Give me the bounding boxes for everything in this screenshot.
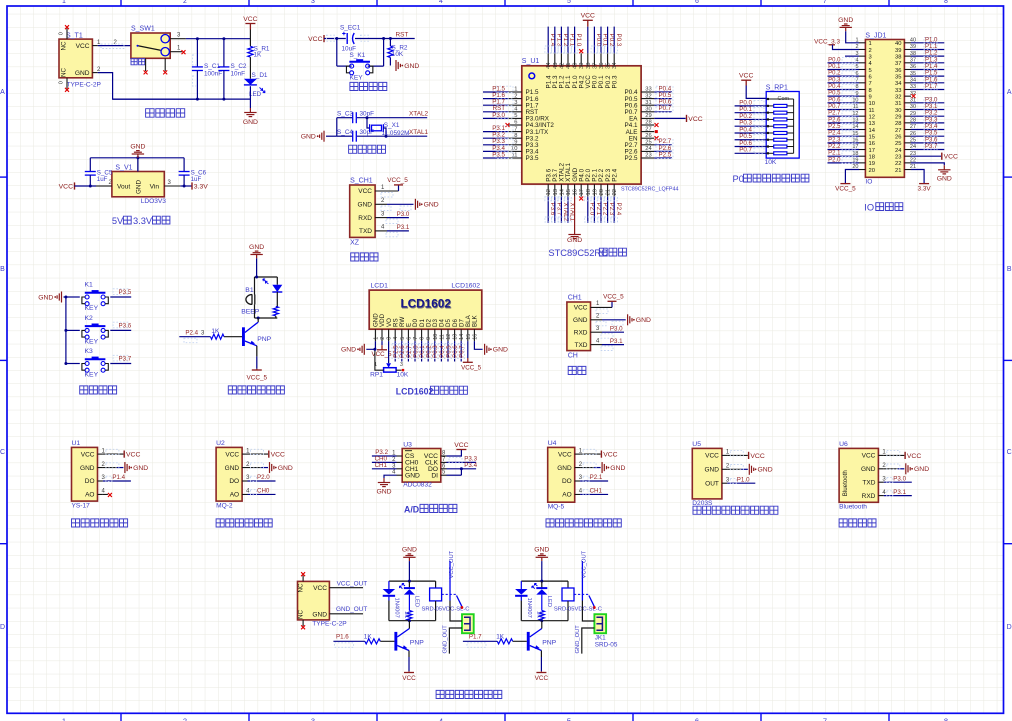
svg-text:S_T1: S_T1 <box>66 32 83 39</box>
svg-text:D: D <box>0 624 5 631</box>
relay base resistor 1K <box>497 639 512 644</box>
pin stub T1 top <box>66 29 68 40</box>
svg-text:VCC: VCC <box>454 442 468 449</box>
svg-text:5: 5 <box>400 337 406 340</box>
svg-text:41: 41 <box>566 63 572 69</box>
power port VCC JD1 right <box>911 155 941 157</box>
svg-text:30: 30 <box>645 107 651 113</box>
svg-text:P2.5: P2.5 <box>659 151 672 158</box>
svg-text:DO: DO <box>562 478 572 485</box>
svg-text:3: 3 <box>387 337 393 340</box>
svg-text:44: 44 <box>546 62 552 69</box>
svg-text:GND: GND <box>573 317 588 324</box>
relay connector wires <box>582 601 594 622</box>
svg-text:16: 16 <box>869 141 875 147</box>
svg-text:Bluetooth: Bluetooth <box>839 504 867 511</box>
diode 1N4007 <box>388 581 390 589</box>
svg-text:P3.7: P3.7 <box>119 356 132 363</box>
svg-text:5: 5 <box>567 0 571 5</box>
svg-text:VCC: VCC <box>688 116 702 123</box>
svg-text:28: 28 <box>645 120 651 126</box>
svg-text:P1.0: P1.0 <box>737 476 750 483</box>
svg-text:19: 19 <box>869 161 875 167</box>
svg-text:MQ-2: MQ-2 <box>216 502 233 509</box>
svg-text:GND: GND <box>402 547 417 554</box>
svg-text:1uF: 1uF <box>97 176 108 183</box>
resistor S_R2 10K <box>389 39 391 47</box>
svg-text:JK1: JK1 <box>595 634 606 641</box>
svg-text:P3.5: P3.5 <box>526 155 539 162</box>
svg-text:2: 2 <box>869 48 872 54</box>
svg-text:P0.7: P0.7 <box>460 345 466 358</box>
svg-text:0: 0 <box>59 32 65 35</box>
svg-text:P2.4: P2.4 <box>611 168 618 181</box>
svg-text:VCC: VCC <box>308 36 322 43</box>
svg-text:1K: 1K <box>403 611 409 618</box>
power port VCC RP1 <box>741 80 751 85</box>
svg-text:P2.4: P2.4 <box>615 203 622 216</box>
wire T1 VCC to SW1 <box>98 45 131 47</box>
capacitor S_C3 30pF <box>353 112 357 123</box>
svg-text:8: 8 <box>420 337 426 340</box>
svg-text:GND: GND <box>861 466 876 473</box>
svg-text:KEY: KEY <box>85 372 99 379</box>
svg-text:P2.0: P2.0 <box>828 157 841 163</box>
JD1 row20 to VCC_5 <box>845 170 859 184</box>
svg-text:GND: GND <box>249 244 264 251</box>
svg-text:4: 4 <box>439 717 443 721</box>
svg-text:23: 23 <box>895 154 901 160</box>
svg-text:15: 15 <box>869 134 875 140</box>
svg-text:P0: P0 <box>733 174 744 184</box>
ground alarm <box>250 251 262 258</box>
svg-text:KEY: KEY <box>350 74 364 81</box>
svg-text:P1.4: P1.4 <box>925 64 938 70</box>
svg-text:VCC: VCC <box>558 451 572 458</box>
svg-text:S_JD1: S_JD1 <box>865 32 886 39</box>
svg-text:26: 26 <box>645 133 651 139</box>
wire VCC_OUT <box>329 587 363 589</box>
svg-text:6: 6 <box>695 0 699 5</box>
U3 net P3.2 <box>372 455 397 457</box>
LCD pin1 to GND left <box>366 341 375 349</box>
relay bottom rail <box>389 620 436 622</box>
svg-text:TXD: TXD <box>862 479 875 486</box>
ground relay <box>403 554 415 561</box>
power port 3.3V right <box>180 185 192 187</box>
power port VCC <box>245 24 255 30</box>
connector CH1 serial <box>567 302 591 351</box>
ground power circuit <box>244 108 256 117</box>
svg-text:17: 17 <box>579 189 585 195</box>
svg-text:GND: GND <box>358 202 373 209</box>
svg-text:P2.2: P2.2 <box>828 144 841 150</box>
svg-text:P0.0: P0.0 <box>828 57 841 63</box>
svg-text:U6: U6 <box>839 441 848 448</box>
svg-text:P2.7: P2.7 <box>828 111 841 117</box>
svg-text:GND: GND <box>80 465 95 472</box>
svg-text:3: 3 <box>869 54 872 60</box>
svg-text:VCC: VCC <box>739 73 753 80</box>
svg-text:VCC: VCC <box>402 675 416 682</box>
svg-text:K1: K1 <box>85 282 94 289</box>
title smoke module <box>216 519 272 527</box>
svg-text:42: 42 <box>559 63 565 69</box>
svg-text:GND: GND <box>758 467 773 474</box>
svg-text:P1.1: P1.1 <box>925 44 938 50</box>
svg-text:P2.5: P2.5 <box>625 155 638 162</box>
title download port <box>351 253 378 261</box>
svg-text:C: C <box>0 449 5 456</box>
svg-text:P0.7: P0.7 <box>739 147 752 154</box>
svg-text:1K: 1K <box>496 634 505 641</box>
svg-text:GND: GND <box>130 143 145 150</box>
svg-text:A: A <box>0 89 5 96</box>
svg-text:VCC_5: VCC_5 <box>461 364 482 371</box>
svg-text:S_X1: S_X1 <box>384 122 400 129</box>
svg-text:1: 1 <box>62 717 66 721</box>
svg-text:GND: GND <box>704 467 719 474</box>
svg-text:14: 14 <box>559 188 565 195</box>
svg-text:VCC: VCC <box>574 305 588 312</box>
svg-text:P1.6: P1.6 <box>925 77 938 83</box>
alarm LED <box>276 277 278 285</box>
SW1 bottom stubs <box>145 58 147 71</box>
svg-text:5: 5 <box>567 717 571 721</box>
svg-text:VCC_3.3: VCC_3.3 <box>814 39 840 46</box>
svg-text:S_C1: S_C1 <box>204 63 220 70</box>
svg-text:11: 11 <box>439 334 445 340</box>
svg-text:VCC_OUT: VCC_OUT <box>449 550 455 578</box>
svg-text:P1.0: P1.0 <box>575 34 582 47</box>
relay LED <box>541 581 543 588</box>
title crystal circuit <box>349 145 386 153</box>
svg-text:S_C3: S_C3 <box>337 110 353 117</box>
svg-text:P2.1: P2.1 <box>590 474 603 481</box>
svg-text:40: 40 <box>573 63 579 69</box>
svg-text:VCC: VCC <box>225 451 239 458</box>
svg-text:9: 9 <box>514 140 517 146</box>
power port 3.3V JD1 bottom <box>911 170 924 184</box>
svg-text:5: 5 <box>869 68 872 74</box>
MCU bottom pins <box>547 184 549 197</box>
capacitor S_C5 1uF <box>89 158 91 172</box>
svg-text:VCC_5: VCC_5 <box>246 375 267 382</box>
zone dividers top and bottom <box>120 0 122 6</box>
svg-text:39: 39 <box>895 48 901 54</box>
svg-text:10K: 10K <box>765 159 777 166</box>
U3 GND <box>384 475 397 478</box>
svg-text:RXD: RXD <box>358 215 372 222</box>
ground relay <box>536 554 548 561</box>
svg-text:CH1: CH1 <box>375 462 388 469</box>
title PIR module <box>693 506 778 514</box>
wire P1.7 <box>463 640 497 642</box>
svg-text:VCC: VCC <box>603 452 617 459</box>
svg-text:3.3V: 3.3V <box>194 183 208 190</box>
svg-text:P2.0: P2.0 <box>257 474 270 481</box>
svg-text:S_SW1: S_SW1 <box>131 26 155 33</box>
left drop and ground crystal <box>336 118 338 137</box>
svg-text:P3.0: P3.0 <box>893 475 906 482</box>
relay coil <box>435 581 437 588</box>
svg-text:C: C <box>1007 449 1012 456</box>
svg-text:37: 37 <box>592 63 598 69</box>
svg-text:RXD: RXD <box>862 493 876 500</box>
MCU U1 STC89C52RC_LQFP44 <box>522 66 641 184</box>
svg-text:7: 7 <box>869 81 872 87</box>
regulator S_V1 LDO3V3 <box>112 172 164 197</box>
resistor pack S_RP1 10K <box>746 86 766 99</box>
svg-text:P1.5: P1.5 <box>925 71 938 77</box>
U3 net CH0 <box>372 461 397 463</box>
capacitor S_C1 100nF <box>196 39 198 67</box>
svg-text:NC: NC <box>61 67 68 77</box>
svg-text:P3.2: P3.2 <box>925 111 938 117</box>
svg-text:1: 1 <box>514 87 517 93</box>
svg-text:19: 19 <box>592 189 598 195</box>
XZ pin 1 VCC_5 <box>375 190 398 192</box>
svg-text:KEY: KEY <box>85 338 99 345</box>
svg-text:12: 12 <box>546 189 552 195</box>
relay emitter VCC <box>408 651 410 658</box>
relay transistor PNP <box>394 632 397 651</box>
pin 1 GND top <box>137 158 139 172</box>
potentiometer RP1 10K <box>388 341 390 363</box>
svg-text:AO: AO <box>562 492 571 499</box>
svg-text:P3.5: P3.5 <box>119 289 132 296</box>
svg-text:B: B <box>0 266 5 273</box>
svg-text:33: 33 <box>895 88 901 94</box>
zone dividers left and right <box>0 176 7 178</box>
svg-text:P0.5: P0.5 <box>828 91 841 97</box>
svg-text:P3.0: P3.0 <box>397 211 410 218</box>
relay top rail <box>521 580 568 582</box>
svg-text:16: 16 <box>573 189 579 195</box>
MCU right pins <box>641 91 654 93</box>
svg-text:34: 34 <box>612 62 618 69</box>
relay coil <box>567 581 569 588</box>
svg-text:16: 16 <box>472 334 478 340</box>
svg-text:GND: GND <box>937 176 952 183</box>
title relay control <box>436 690 502 698</box>
svg-text:GND: GND <box>424 202 439 209</box>
svg-text:4: 4 <box>393 337 399 340</box>
svg-text:SRD-05: SRD-05 <box>595 641 618 648</box>
relay resistor 1K <box>408 595 410 611</box>
svg-text:10K: 10K <box>397 372 409 379</box>
svg-text:LED: LED <box>546 596 552 607</box>
svg-text:RP1: RP1 <box>370 372 383 379</box>
svg-text:8: 8 <box>514 133 517 139</box>
pin 2 Vout <box>96 185 112 187</box>
LCD1 module box <box>369 290 482 329</box>
svg-text:GND: GND <box>914 466 929 473</box>
svg-text:CH1: CH1 <box>590 488 603 495</box>
key K3 <box>66 363 80 365</box>
XZ pin 3 P3.0 <box>375 217 387 219</box>
svg-text:S_D1: S_D1 <box>252 72 268 79</box>
svg-text:P1.6: P1.6 <box>336 634 349 641</box>
title key circuit <box>80 386 117 394</box>
svg-text:P0.6: P0.6 <box>828 97 841 103</box>
svg-text:P3.6: P3.6 <box>925 137 938 143</box>
title power circuit <box>146 109 185 118</box>
svg-text:NC: NC <box>298 609 305 619</box>
LCD pin16 to GND right <box>474 341 482 349</box>
svg-text:XTAL1: XTAL1 <box>409 129 429 136</box>
svg-text:P0.4: P0.4 <box>828 84 841 90</box>
svg-text:1uF: 1uF <box>191 176 202 183</box>
svg-text:GND: GND <box>225 465 240 472</box>
relay contact <box>449 561 451 601</box>
svg-text:VCC_OUT: VCC_OUT <box>337 581 368 588</box>
svg-text:VCC_OUT: VCC_OUT <box>581 550 587 578</box>
ground 5V33 <box>132 151 144 158</box>
svg-text:VCC: VCC <box>271 452 285 459</box>
svg-text:U5: U5 <box>692 441 701 448</box>
svg-text:TXD: TXD <box>575 342 588 349</box>
ADC U3 ADC0832 <box>402 449 441 483</box>
svg-text:VCC: VCC <box>81 451 95 458</box>
svg-text:AO: AO <box>230 492 239 499</box>
svg-text:6: 6 <box>406 337 412 340</box>
svg-text:6: 6 <box>514 120 517 126</box>
svg-text:P2.4: P2.4 <box>828 131 841 137</box>
svg-text:XZ: XZ <box>350 239 360 246</box>
module U4 MQ-5 <box>548 447 575 502</box>
relay top rail <box>389 580 436 582</box>
svg-text:VCC_5: VCC_5 <box>603 294 624 301</box>
svg-text:32: 32 <box>645 93 651 99</box>
JD1 right pins and nets <box>904 42 911 44</box>
svg-text:PNP: PNP <box>542 640 556 647</box>
wire GND_OUT <box>329 613 363 615</box>
svg-text:43: 43 <box>553 63 559 69</box>
svg-text:11: 11 <box>511 153 517 159</box>
svg-text:21: 21 <box>895 168 901 174</box>
svg-text:GND: GND <box>312 611 327 618</box>
svg-text:P3.5: P3.5 <box>925 131 938 137</box>
svg-text:1N4007: 1N4007 <box>526 598 532 618</box>
svg-text:DI: DI <box>431 472 438 479</box>
wires P0 nets to RP1 <box>735 105 767 107</box>
svg-text:GND: GND <box>133 465 148 472</box>
title gas module <box>546 519 621 527</box>
svg-text:28: 28 <box>895 121 901 127</box>
svg-text:CH: CH <box>568 353 578 360</box>
title alarm circuit <box>228 386 284 394</box>
svg-text:P3.1: P3.1 <box>610 338 623 345</box>
ground JD1 top <box>840 24 852 31</box>
svg-text:6: 6 <box>869 74 872 80</box>
U3 VCC <box>447 450 462 457</box>
svg-text:8: 8 <box>944 0 948 5</box>
title reset circuit <box>350 82 387 90</box>
TYPE-C-2P bottom stub <box>302 620 304 626</box>
LED S_D1 <box>244 79 257 85</box>
svg-text:VCC: VCC <box>750 453 764 460</box>
svg-text:VCC: VCC <box>862 453 876 460</box>
svg-text:S_K1: S_K1 <box>350 52 366 59</box>
svg-text:S_C4: S_C4 <box>337 129 353 136</box>
svg-text:3: 3 <box>514 100 517 106</box>
svg-text:VCC: VCC <box>313 585 327 592</box>
svg-text:23: 23 <box>645 153 651 159</box>
svg-text:22: 22 <box>895 161 901 167</box>
alarm resistor <box>273 307 278 316</box>
svg-text:GND: GND <box>838 17 853 24</box>
svg-text:VCC_5: VCC_5 <box>387 177 408 184</box>
svg-text:S_RP1: S_RP1 <box>766 85 788 92</box>
svg-text:GND_OUT: GND_OUT <box>442 625 448 654</box>
LCD pin2 VCC_5 <box>381 341 383 345</box>
svg-text:S_EC1: S_EC1 <box>340 25 361 32</box>
module U1 YS-17 <box>72 447 98 501</box>
svg-text:6: 6 <box>695 717 699 721</box>
svg-text:LCD1602: LCD1602 <box>396 386 434 396</box>
svg-text:15: 15 <box>466 334 472 340</box>
svg-text:B: B <box>1007 266 1012 273</box>
svg-text:LDO3V3: LDO3V3 <box>141 198 167 205</box>
pin 1 T1 VCC <box>92 45 97 47</box>
key S_K1 <box>336 39 338 67</box>
svg-text:1N4007: 1N4007 <box>393 598 399 618</box>
svg-text:Vout: Vout <box>117 183 130 190</box>
resistor S_R1 1K <box>249 30 251 47</box>
svg-text:IO: IO <box>864 203 874 213</box>
ground keys <box>57 292 61 303</box>
relay resistor 1K <box>541 595 543 611</box>
svg-text:P0.3: P0.3 <box>615 34 622 47</box>
wire RST <box>384 38 415 40</box>
svg-text:P2.1: P2.1 <box>828 151 841 157</box>
emitter to VCC_5 <box>256 346 258 357</box>
title bluetooth module <box>839 519 876 527</box>
svg-text:TXD: TXD <box>359 228 372 235</box>
XZ pin 2 GND <box>375 203 387 205</box>
svg-text:U3: U3 <box>403 441 412 448</box>
connector S_T1 TYPE-C-2P <box>59 39 92 78</box>
svg-text:IO: IO <box>865 179 872 186</box>
svg-text:VCC: VCC <box>705 453 719 460</box>
svg-text:38: 38 <box>586 63 592 69</box>
svg-text:31: 31 <box>645 100 651 106</box>
svg-text:VCC: VCC <box>944 154 958 161</box>
svg-text:CH0: CH0 <box>257 488 270 495</box>
svg-text:31: 31 <box>895 101 901 107</box>
svg-text:GND: GND <box>404 63 419 70</box>
svg-text:P1.2: P1.2 <box>925 51 938 57</box>
svg-text:P3.0: P3.0 <box>610 326 623 333</box>
svg-text:22: 22 <box>612 189 618 195</box>
svg-text:13: 13 <box>453 334 459 340</box>
svg-text:A: A <box>1007 89 1012 96</box>
svg-text:10K: 10K <box>392 51 404 58</box>
relay base resistor 1K <box>365 639 380 644</box>
transistor Q1 PNP alarm <box>242 327 245 346</box>
capacitor S_C2 10nF <box>223 39 225 67</box>
relay output connector <box>594 614 606 633</box>
svg-text:S_V1: S_V1 <box>115 164 132 171</box>
module U5 D203S <box>692 448 722 499</box>
relay contact <box>581 561 583 601</box>
LCD net wires <box>394 341 396 361</box>
svg-text:VCC: VCC <box>581 13 595 20</box>
svg-text:LCD1: LCD1 <box>371 283 389 290</box>
svg-text:GND: GND <box>243 119 258 126</box>
svg-text:GND: GND <box>341 347 356 354</box>
